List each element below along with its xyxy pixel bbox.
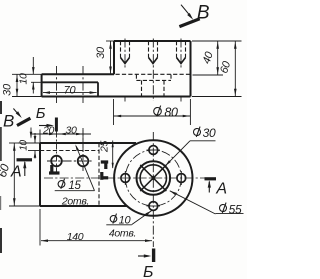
view B mark left: [3, 109, 30, 131]
dim 60 right: [218, 41, 236, 97]
bolt hole right: [177, 174, 186, 183]
svg-text:10: 10: [18, 73, 30, 85]
plan hole centerline horizontal: [47, 160, 92, 162]
svg-text:30: 30: [203, 126, 216, 140]
hole cross ticks: [125, 150, 181, 206]
svg-text:30: 30: [2, 83, 14, 96]
section bend mark 2: [101, 162, 108, 169]
front view step edge: [42, 82, 98, 96]
plan view outline: [40, 143, 136, 206]
section bend mark 1: [49, 165, 60, 175]
svg-text:55: 55: [229, 202, 242, 216]
svg-text:Б: Б: [143, 264, 153, 279]
hole phi15 right: [78, 156, 89, 167]
plan hole centerlines vertical: [57, 130, 84, 175]
flange outer circle: [114, 140, 192, 216]
section bend mark 3: [101, 172, 108, 180]
dim phi80: [114, 99, 191, 125]
view A left letter: [10, 164, 21, 181]
view B mark top right: [179, 3, 209, 27]
front view outline: [42, 41, 191, 97]
section B mark top: [36, 105, 57, 132]
dim 20 30 line: [30, 128, 91, 153]
svg-text:80: 80: [164, 106, 178, 120]
hole phi15 left: [51, 156, 62, 167]
leader phi30: [165, 126, 216, 166]
svg-text:4отв.: 4отв.: [109, 228, 136, 240]
flange vertical centerline: [152, 132, 154, 247]
front hole centerlines: [57, 66, 84, 103]
dim 10 left: [18, 57, 35, 94]
svg-text:60: 60: [218, 59, 233, 75]
section B mark bottom: [138, 249, 154, 279]
dim 70: [43, 85, 97, 97]
svg-text:30: 30: [95, 46, 107, 59]
bottom edge ticks: [125, 97, 181, 102]
hidden plate top behind block: [116, 73, 190, 75]
view A right mark: [205, 179, 217, 193]
plan hidden block edge: [98, 143, 100, 206]
border artifacts: [0, 101, 2, 253]
section step line: [44, 177, 208, 179]
dim 10 plan: [18, 133, 40, 159]
svg-text:10: 10: [19, 140, 30, 151]
leader phi15: [55, 144, 95, 207]
extension lines left: [12, 74, 42, 96]
leader phi55: [169, 191, 243, 217]
bolt hole left: [121, 174, 130, 183]
svg-text:40: 40: [201, 50, 216, 66]
svg-text:15: 15: [68, 180, 81, 192]
svg-text:140: 140: [67, 231, 84, 243]
svg-text:Б: Б: [36, 105, 46, 122]
svg-text:30: 30: [65, 125, 77, 137]
bolt hole bottom: [149, 202, 158, 211]
flange ring inner: [140, 165, 166, 191]
blind hole centerlines: [125, 39, 181, 102]
leader phi10: [106, 211, 152, 240]
hidden blind holes in block top: [121, 41, 186, 64]
svg-text:А: А: [215, 181, 226, 198]
flange ring outer: [137, 161, 171, 195]
dim 140: [40, 209, 152, 246]
view A right letter: [215, 181, 226, 198]
hidden center hole chamfer: [136, 75, 171, 81]
hidden center hole bore: [142, 80, 165, 96]
svg-text:10: 10: [119, 215, 132, 227]
dim 30 text: [65, 125, 77, 137]
svg-text:2отв.: 2отв.: [61, 196, 89, 208]
dim 25: [99, 141, 114, 169]
svg-text:А: А: [10, 164, 21, 181]
view A left mark: [17, 160, 33, 176]
dim 30 block: [95, 41, 114, 74]
bolt hole top: [149, 146, 158, 155]
diagonal cross: [140, 165, 166, 191]
extension lines right: [192, 41, 242, 97]
dim 30 left: [2, 74, 19, 96]
bolt circle: [125, 150, 181, 206]
svg-text:25: 25: [99, 141, 111, 154]
dim 20 text: [42, 125, 55, 137]
dim 60 plan: [0, 143, 40, 206]
svg-text:В: В: [3, 112, 14, 131]
dim 40: [201, 41, 219, 75]
svg-text:70: 70: [64, 85, 77, 97]
plan hidden step line: [40, 150, 99, 152]
